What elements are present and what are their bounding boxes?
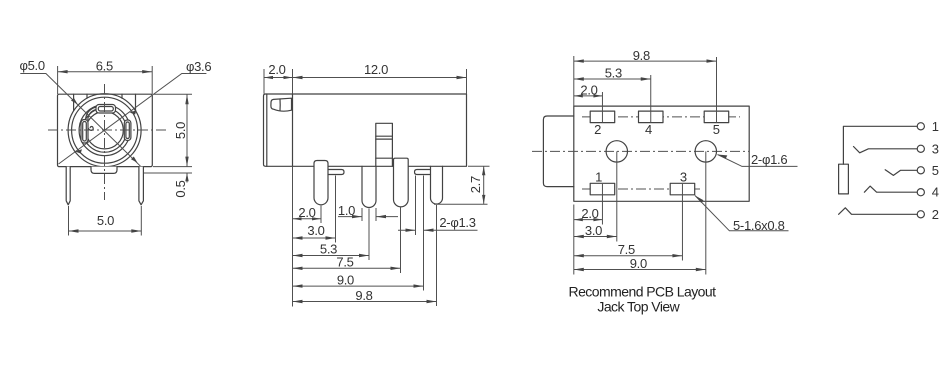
body front face line (292, 94, 294, 166)
dim 5.0 bottom (68, 206, 70, 236)
dim 2.0 pcb bottom (574, 219, 603, 221)
svg-text:4: 4 (645, 122, 652, 137)
flange edge line right (135, 94, 137, 110)
svg-text:1: 1 (595, 169, 602, 184)
svg-text:φ5.0: φ5.0 (20, 58, 45, 73)
bottom tab (91, 167, 117, 174)
svg-text:1.0: 1.0 (338, 203, 355, 218)
svg-text:2: 2 (594, 122, 601, 137)
top edge tick (86, 94, 88, 98)
terminal 1 circle (917, 123, 924, 130)
wire pin3 with switch (854, 147, 918, 153)
svg-text:3.0: 3.0 (585, 223, 602, 238)
ext hole2 center (705, 151, 707, 274)
ext line leg2 center (368, 209, 370, 261)
dim 7.5 (293, 267, 401, 269)
svg-text:5: 5 (713, 122, 720, 137)
ext pad2 center (601, 92, 603, 123)
svg-text:12.0: 12.0 (364, 62, 388, 77)
svg-text:2-φ1.3: 2-φ1.3 (439, 215, 475, 230)
hole left (606, 141, 627, 162)
flange edge line left (73, 94, 75, 110)
leg 2 (362, 166, 376, 207)
svg-text:1: 1 (932, 119, 939, 134)
leg 3 (394, 158, 409, 207)
dim 2.7 right (468, 165, 490, 167)
plug sleeve symbol (839, 164, 849, 194)
right contact (124, 120, 131, 141)
main centerline (532, 150, 749, 152)
bottom dims ext left (573, 205, 575, 275)
terminal 2 circle (917, 211, 924, 218)
top edge tick (121, 94, 123, 98)
dim 7.5 pcb (574, 255, 683, 257)
dim 9.0 pcb (574, 269, 706, 271)
svg-text:2.7: 2.7 (468, 176, 483, 193)
ext line leg5 center (436, 205, 438, 306)
svg-text:2.0: 2.0 (268, 62, 285, 77)
svg-text:Recommend PCB Layout: Recommend PCB Layout (569, 284, 717, 300)
dim 2.0 bottom (293, 218, 322, 220)
svg-text:9.0: 9.0 (337, 272, 354, 287)
svg-text:6.5: 6.5 (96, 59, 113, 74)
dim 3.0 pcb (574, 236, 617, 238)
svg-text:2: 2 (932, 207, 939, 222)
svg-text:9.8: 9.8 (355, 288, 372, 303)
ext pad5 center (716, 57, 718, 123)
terminal 4 circle (917, 189, 924, 196)
leader 5-1.6x0.8 (695, 196, 789, 231)
barrel outer circle (68, 94, 141, 167)
svg-text:9.8: 9.8 (633, 48, 650, 63)
top dims ext left (573, 56, 575, 106)
dim 9.8 (293, 301, 437, 303)
right leg (139, 167, 144, 205)
top pads centerline (582, 116, 740, 118)
leader phi5.0 (20, 74, 140, 167)
ext lines leg2 width (361, 208, 363, 221)
dim 12.0 top (466, 69, 468, 94)
hole inner ring (83, 108, 127, 152)
latch detail (271, 98, 292, 111)
dim 9.8 pcb (574, 60, 717, 62)
pcb body outline (574, 106, 749, 201)
terminal 5 circle (917, 167, 924, 174)
wire pin4 with contact (864, 186, 917, 192)
pad 3 (670, 183, 695, 195)
svg-text:5-1.6x0.8: 5-1.6x0.8 (733, 218, 785, 233)
svg-text:5.3: 5.3 (320, 242, 337, 257)
svg-text:φ3.6: φ3.6 (186, 59, 211, 74)
dim 6.5 top (57, 66, 59, 94)
svg-text:4: 4 (932, 185, 939, 200)
dim 5.3 pcb (574, 78, 651, 80)
svg-text:5.3: 5.3 (605, 66, 622, 81)
ext line body face bottom (292, 166, 294, 306)
svg-text:5.0: 5.0 (173, 122, 188, 139)
jack body front outline (58, 94, 153, 166)
leader phi3.6 (59, 74, 207, 165)
center post cap (376, 123, 393, 139)
svg-text:5: 5 (932, 163, 939, 178)
svg-text:7.5: 7.5 (618, 242, 635, 257)
terminal 3 circle (917, 145, 924, 152)
svg-text:3: 3 (680, 169, 687, 184)
center post shaft (375, 139, 377, 166)
svg-text:2.0: 2.0 (580, 82, 597, 97)
leg 5 step (415, 170, 431, 175)
ext pad1 center (601, 184, 603, 225)
top contact tab (96, 105, 116, 114)
wire pin1 (843, 126, 917, 164)
pad 4 (639, 111, 664, 123)
dim 2.0 pcb top (574, 95, 603, 97)
svg-text:2.0: 2.0 (581, 206, 598, 221)
leader 2-phi1.6 (718, 155, 798, 167)
ext hole1 center (616, 151, 618, 241)
left contact (81, 120, 88, 144)
ext pad4 center (650, 75, 652, 123)
pad 2 (590, 111, 615, 123)
wire pin2 with contact (839, 208, 918, 215)
dim 2-phi1.3 (398, 229, 416, 231)
hole right (695, 141, 716, 162)
inner depth circle (86, 112, 123, 149)
pad 1 (590, 183, 615, 195)
svg-text:9.0: 9.0 (630, 256, 647, 271)
leg 1 (314, 161, 328, 205)
leg 1 step (328, 170, 344, 175)
dim 9.0 (293, 285, 424, 287)
dim 0.5 right (144, 172, 192, 174)
svg-text:2.0: 2.0 (298, 205, 315, 220)
jack body side outline (264, 94, 467, 166)
wire pin5 with switch (885, 170, 917, 176)
svg-text:3.0: 3.0 (307, 223, 324, 238)
left leg (66, 167, 70, 205)
dim 1.0 (338, 216, 362, 218)
svg-text:2-φ1.6: 2-φ1.6 (751, 152, 787, 167)
ext line leg1 center (320, 206, 322, 224)
ext lines pin4 dia (415, 176, 417, 236)
svg-text:Jack Top View: Jack Top View (597, 299, 680, 315)
vertical centerline (104, 84, 106, 200)
svg-text:3: 3 (932, 141, 939, 156)
dim 3.0 (293, 237, 336, 239)
svg-text:7.5: 7.5 (336, 255, 353, 270)
horizontal centerline (48, 129, 168, 131)
leg 5 (431, 166, 443, 204)
barrel ring circle (72, 97, 138, 163)
ext line leg3 center (400, 208, 402, 274)
dim 5.0 right (154, 93, 192, 95)
svg-text:5.0: 5.0 (97, 213, 114, 228)
ext line step1 edge (335, 176, 337, 243)
ext pad3 center (681, 184, 683, 261)
barrel face inner line (266, 94, 268, 166)
svg-text:0.5: 0.5 (173, 180, 188, 197)
spring curl (86, 107, 96, 130)
hole circle (79, 105, 130, 156)
dim 2.0 top (263, 69, 265, 94)
barrel footprint (543, 116, 573, 187)
bottom pads centerline (582, 188, 702, 190)
dim 5.3 (293, 255, 370, 257)
pad 5 (704, 111, 729, 123)
